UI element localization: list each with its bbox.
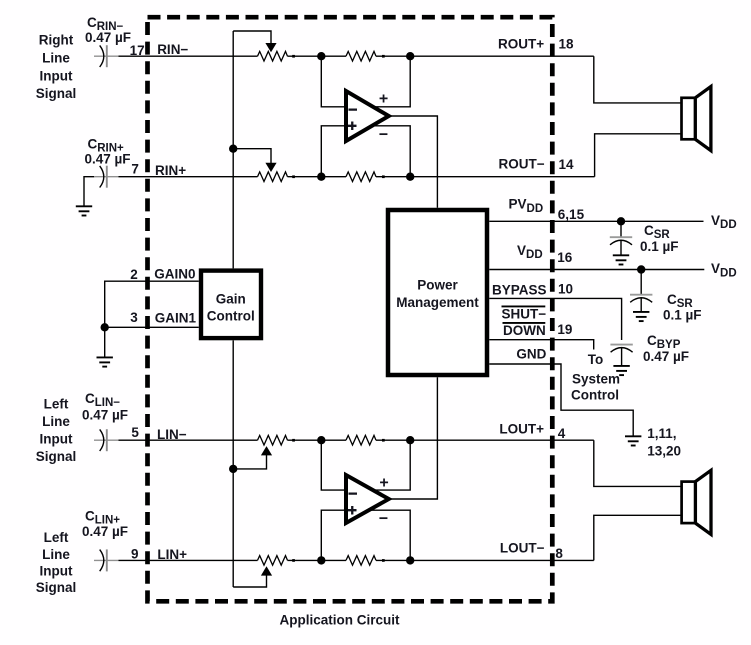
potentiometer RIN+ wiper arrow — [265, 163, 276, 172]
wire top pot loop — [233, 31, 271, 44]
svg-text:0.1 µF: 0.1 µF — [640, 239, 679, 254]
wire op-amp R noninverting input — [321, 126, 346, 177]
svg-text:Input: Input — [40, 432, 73, 447]
wire GAIN1 (pin 3) — [105, 327, 199, 357]
wire branch to RIN+ pot tap — [233, 149, 271, 164]
svg-text:GND: GND — [516, 346, 546, 361]
svg-text:6,15: 6,15 — [558, 207, 585, 222]
svg-text:−: − — [379, 511, 388, 528]
potentiometer LIN+ body — [258, 556, 288, 566]
op-amp U2 (left channel) — [346, 475, 389, 523]
svg-text:BYPASS: BYPASS — [492, 283, 547, 298]
svg-text:Left: Left — [44, 530, 69, 545]
svg-text:4: 4 — [558, 426, 566, 441]
svg-text:DOWN: DOWN — [503, 323, 546, 338]
speaker left channel — [682, 470, 711, 534]
svg-text:18: 18 — [559, 37, 575, 52]
svg-text:ROUT−: ROUT− — [499, 157, 545, 172]
svg-text:−: − — [379, 126, 388, 143]
svg-text:8: 8 — [555, 546, 563, 561]
svg-text:Gain: Gain — [216, 291, 246, 306]
potentiometer RIN+ body — [258, 172, 288, 182]
capacitor CSR on VDD — [630, 270, 652, 312]
wire op-amp R inverting input — [321, 56, 346, 107]
wire GND (pins 1,11,13,20) — [489, 364, 633, 436]
potentiometer RIN- wiper arrow — [265, 43, 276, 52]
op-amp U1 (right channel) — [346, 91, 389, 141]
resistor feedback L channel top — [346, 435, 376, 445]
svg-text:0.1 µF: 0.1 µF — [663, 308, 702, 323]
wire gain-select vertical through Gain Control — [232, 31, 234, 587]
svg-text:0.47 µF: 0.47 µF — [85, 30, 131, 45]
svg-text:9: 9 — [131, 546, 139, 561]
svg-text:LOUT−: LOUT− — [500, 541, 545, 556]
capacitor CRIN- — [94, 45, 119, 67]
svg-text:Line: Line — [42, 51, 70, 66]
svg-text:Signal: Signal — [36, 86, 77, 101]
svg-text:19: 19 — [557, 322, 572, 337]
svg-text:Management: Management — [396, 295, 479, 310]
svg-text:2: 2 — [130, 267, 138, 282]
wire op-amp R - output feedback — [372, 126, 410, 177]
svg-text:14: 14 — [559, 157, 575, 172]
svg-text:GAIN0: GAIN0 — [154, 266, 195, 281]
wire op-amp R + output feedback — [374, 56, 411, 107]
wire bottom pot loop — [233, 575, 266, 587]
wire op-amp L noninverting input — [321, 510, 346, 560]
op-amp U2 input polarity marks — [348, 494, 357, 515]
svg-text:Line: Line — [42, 547, 70, 562]
wire LIN- row (y=440.2) — [119, 439, 594, 441]
label SHUTDOWN (overlined) — [502, 306, 547, 338]
svg-text:Input: Input — [40, 564, 73, 579]
wire PVDD rail (pins 6,15) — [489, 220, 703, 222]
svg-text:SHUT−: SHUT− — [502, 306, 547, 321]
potentiometer LIN+ wiper arrow — [261, 566, 272, 575]
ground at GAIN1 — [97, 357, 113, 366]
wire op-amp R apex to power management — [389, 116, 438, 208]
svg-text:0.47 µF: 0.47 µF — [82, 408, 128, 423]
wire LOUT+ to speaker — [594, 440, 682, 486]
IC boundary (dashed application-circuit border) — [148, 17, 553, 601]
block Gain Control — [201, 271, 261, 339]
wire RIN+ row (y=176.7) — [84, 177, 595, 207]
label To System Control — [571, 352, 620, 403]
wire GAIN0 (pin 2) — [105, 281, 199, 327]
svg-text:3: 3 — [130, 310, 138, 325]
ground at RIN+ input — [76, 206, 92, 215]
speaker right channel — [682, 87, 711, 151]
svg-text:1,11,: 1,11, — [647, 426, 676, 441]
potentiometer RIN- body — [258, 51, 288, 61]
resistor feedback R channel top — [346, 51, 376, 61]
svg-text:Power: Power — [417, 278, 458, 293]
svg-text:Left: Left — [44, 397, 69, 412]
svg-text:Application Circuit: Application Circuit — [279, 613, 400, 628]
wire SHUTDOWN (pin 19) to system control — [489, 340, 593, 350]
ground system control (1,11,13,20) — [625, 436, 641, 445]
resistor feedback L channel bottom — [346, 556, 376, 566]
terminal squares on pot and resistor ends — [292, 55, 385, 562]
svg-text:Signal: Signal — [36, 449, 77, 464]
svg-text:LIN+: LIN+ — [157, 547, 187, 562]
svg-text:16: 16 — [557, 250, 573, 265]
block Power Management — [388, 210, 487, 375]
ground under CSR (VDD) — [633, 312, 649, 321]
capacitor CRIN+ — [94, 166, 119, 188]
wire op-amp L + output feedback — [372, 440, 410, 490]
wire RIN- row (pin 17 to node, y=56.2) — [119, 55, 594, 57]
capacitor CLIN+ — [94, 549, 119, 571]
wire branch to LIN- pot tap — [233, 455, 266, 469]
svg-text:System: System — [572, 372, 620, 387]
svg-text:GAIN1: GAIN1 — [155, 310, 197, 325]
svg-text:+: + — [379, 90, 388, 107]
label Right Line Input Signal — [36, 33, 77, 102]
svg-text:LOUT+: LOUT+ — [499, 422, 544, 437]
op-amp U1 input polarity marks — [348, 110, 357, 130]
wire ROUT- to speaker — [595, 134, 682, 177]
svg-text:Input: Input — [40, 69, 73, 84]
wire op-amp L apex to power management — [389, 377, 438, 499]
wire LIN+ row (y=560.4) — [119, 559, 594, 561]
label Left Line Input Signal (LIN-) — [36, 397, 77, 465]
capacitor CSR on PVDD — [610, 221, 632, 255]
svg-text:13,20: 13,20 — [647, 444, 681, 459]
capacitor CLIN- — [94, 429, 119, 451]
svg-text:To: To — [588, 352, 604, 367]
svg-text:0.47 µF: 0.47 µF — [643, 349, 689, 364]
wire op-amp L inverting input — [321, 440, 346, 490]
svg-text:7: 7 — [131, 162, 139, 177]
resistor feedback R channel bottom — [346, 172, 376, 182]
capacitor CBYP — [610, 345, 632, 366]
potentiometer LIN- wiper arrow — [261, 446, 272, 455]
ground under CBYP — [613, 366, 629, 375]
svg-text:17: 17 — [130, 43, 145, 58]
potentiometer LIN- body — [258, 435, 288, 445]
wire LOUT- to speaker — [594, 515, 682, 560]
svg-text:Right: Right — [39, 33, 74, 48]
svg-text:+: + — [379, 474, 388, 491]
svg-text:RIN+: RIN+ — [155, 163, 186, 178]
svg-text:Control: Control — [571, 388, 619, 403]
svg-text:10: 10 — [558, 282, 573, 297]
svg-text:RIN−: RIN− — [157, 42, 188, 57]
label Left Line Input Signal (LIN+) — [36, 530, 77, 595]
svg-text:Signal: Signal — [36, 580, 77, 595]
svg-text:ROUT+: ROUT+ — [498, 37, 544, 52]
svg-text:LIN−: LIN− — [157, 427, 187, 442]
svg-text:Line: Line — [42, 414, 70, 429]
svg-text:0.47 µF: 0.47 µF — [85, 152, 131, 167]
wire ROUT+ to speaker — [594, 56, 682, 103]
wire BYPASS (pin 10) to CBYP — [489, 298, 621, 340]
wire VDD rail (pin 16) — [489, 269, 704, 271]
svg-text:0.47 µF: 0.47 µF — [82, 524, 128, 539]
ground under CSR (PVDD) — [613, 255, 629, 264]
junction node dots — [101, 52, 646, 565]
wire op-amp L - output feedback — [371, 510, 410, 560]
svg-text:Control: Control — [207, 308, 255, 323]
svg-text:5: 5 — [131, 425, 139, 440]
